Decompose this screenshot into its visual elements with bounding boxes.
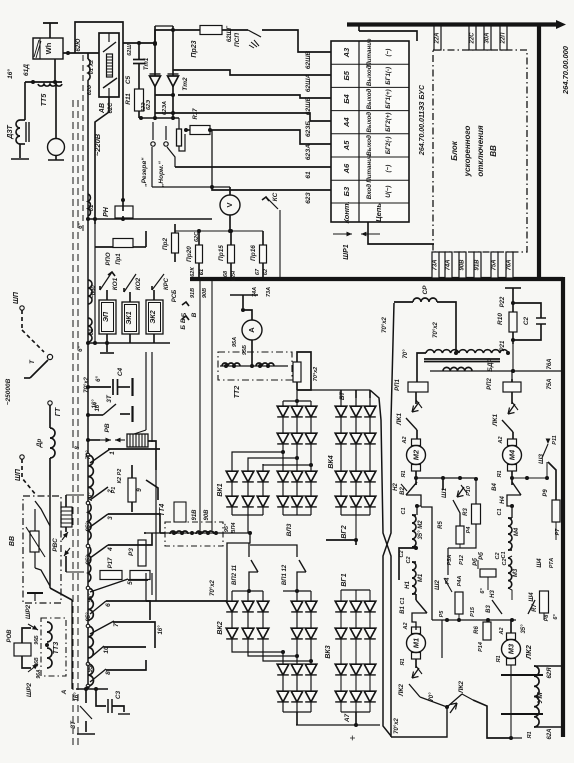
svg-text:R6: R6: [474, 626, 480, 634]
svg-text:62Э: 62Э: [146, 100, 152, 110]
relay RP1 box: [408, 382, 428, 392]
block: Blok uskorennogo otklyucheniya VV (dash-dot box): [433, 50, 527, 252]
svg-text:ШП: ШП: [13, 291, 20, 304]
svg-text:Питание: Питание: [366, 38, 373, 67]
wire right of M4: [512, 477, 548, 479]
svg-text:А2: А2: [402, 436, 408, 444]
svg-text:Р10: Р10: [466, 486, 472, 496]
choke Dr: [48, 401, 52, 405]
svg-text:~25000В: ~25000В: [5, 378, 12, 405]
svg-text:Выход: Выход: [366, 65, 373, 86]
svg-text:Рб: Рб: [478, 552, 485, 560]
svg-text:В1: В1: [400, 606, 406, 614]
svg-text:РПО: РПО: [106, 252, 112, 265]
coil EP: [99, 300, 116, 334]
svg-text:Пр1: Пр1: [116, 253, 122, 265]
svg-text:61 Х2: 61 Х2: [89, 60, 95, 74]
svg-text:Б: Б: [181, 312, 188, 317]
svg-text:Я1: Я1: [400, 658, 406, 666]
collector wire down: [155, 470, 157, 601]
svg-text:6°: 6°: [78, 346, 84, 352]
svg-text:ДЗТ: ДЗТ: [7, 124, 14, 139]
svg-text:Цепь: Цепь: [374, 203, 383, 222]
lamp circle: [48, 139, 65, 156]
svg-text:М4: М4: [508, 449, 517, 460]
svg-text:КО2: КО2: [135, 277, 142, 290]
ammeter A and bar: [230, 294, 258, 296]
long feeder pair down: [370, 390, 391, 737]
ShP lower dashed: [20, 455, 24, 459]
svg-text:А5: А5: [342, 140, 351, 151]
svg-text:Выход: Выход: [366, 89, 373, 110]
svg-text:7: 7: [113, 623, 120, 627]
svg-text:Вход: Вход: [366, 184, 373, 199]
motor M3: [507, 633, 516, 640]
svg-text:75А: 75А: [547, 378, 553, 389]
svg-text:Я1: Я1: [401, 470, 407, 478]
svg-text:70°: 70°: [403, 349, 409, 359]
svg-text:РТА: РТА: [549, 558, 555, 569]
relay DZT coil: [16, 120, 20, 144]
svg-text:ВЛ3: ВЛ3: [286, 523, 293, 536]
svg-text:„Норм.“: „Норм.“: [158, 160, 165, 187]
resistor P4A: [455, 592, 463, 614]
wire bus 224: [88, 218, 212, 220]
svg-text:А2: А2: [403, 622, 409, 630]
svg-text:Б5: Б5: [342, 70, 351, 80]
svg-text:М1: М1: [418, 573, 424, 582]
winding 61 upper: [88, 194, 90, 216]
wire from table to block: [368, 222, 434, 244]
winding 61 lower: [88, 318, 92, 342]
wire PSP to pin A3: [262, 30, 331, 52]
wire R17 down: [211, 130, 213, 187]
svg-text:6: 6: [105, 603, 112, 607]
wires KO to coils: [106, 290, 108, 300]
svg-text:В: В: [191, 312, 198, 317]
svg-text:73А: 73А: [266, 287, 272, 297]
svg-text:68: 68: [223, 270, 229, 277]
svg-text:62Ю: 62Ю: [76, 39, 82, 52]
svg-text:16°: 16°: [158, 625, 164, 635]
svg-text:РВС: РВС: [52, 538, 59, 552]
svg-text:РОВ: РОВ: [7, 629, 13, 643]
svg-text:70°х2: 70°х2: [433, 321, 439, 337]
svg-text:62ША: 62ША: [305, 74, 312, 93]
wire: top feeder bus 264.70.00.000: [347, 22, 560, 26]
wire M2 branch to cluster B: [421, 507, 432, 620]
svg-text:Ш4: Ш4: [529, 592, 535, 602]
svg-text:КС: КС: [272, 192, 279, 201]
R10 C2 network: [505, 287, 521, 289]
svg-text:V: V: [225, 202, 234, 207]
svg-text:95°: 95°: [86, 522, 92, 532]
wire: right edge feeder down: [561, 277, 565, 737]
VK2 bottom stepped: [232, 648, 283, 652]
svg-text:+: +: [348, 735, 359, 741]
svg-text:ВК3: ВК3: [325, 645, 332, 658]
svg-text:М4: М4: [514, 527, 520, 536]
svg-text:Тт1: Тт1: [144, 57, 150, 70]
svg-text:АВ: АВ: [99, 103, 106, 114]
ground top: [43, 22, 58, 24]
svg-text:91В: 91В: [190, 288, 196, 298]
wire A down: [71, 600, 73, 689]
svg-text:ШР2: ШР2: [25, 604, 32, 619]
svg-text:ЛК2: ЛК2: [458, 681, 465, 694]
resistor RV hatched: [127, 434, 148, 447]
coil EK2: [146, 300, 163, 334]
svg-text:91В: 91В: [192, 509, 198, 521]
svg-text:Р22: Р22: [500, 296, 506, 307]
svg-text:БГ1(+): БГ1(+): [385, 89, 392, 108]
resistor R3: [472, 504, 481, 524]
svg-text:Ш2: Ш2: [434, 580, 441, 590]
wire to DZT: [24, 82, 26, 120]
svg-text:Р15: Р15: [470, 606, 476, 617]
svg-text:61: 61: [305, 171, 312, 179]
svg-text:95Б: 95Б: [242, 345, 248, 355]
svg-text:U(~): U(~): [385, 185, 392, 197]
wires thyristors to table: [173, 70, 331, 75]
svg-text:62: 62: [263, 269, 269, 275]
fuse small: [178, 118, 180, 129]
svg-text:62Я: 62Я: [547, 667, 553, 679]
svg-text:95°: 95°: [224, 523, 230, 532]
wire bottom 343: [88, 342, 170, 344]
svg-text:Пр2: Пр2: [162, 237, 169, 250]
svg-text:ВП2 11: ВП2 11: [232, 564, 238, 585]
thyristor Tt1: [154, 26, 156, 120]
contact block ROV: [14, 643, 31, 656]
svg-text:62ШВ: 62ШВ: [305, 51, 312, 70]
svg-text:Н4: Н4: [500, 496, 506, 504]
svg-text:С2: С2: [406, 556, 412, 563]
svg-text:РН: РН: [103, 206, 110, 217]
wire C2 jog: [414, 546, 418, 550]
svg-text:Р1: Р1: [111, 487, 117, 494]
svg-text:„Резерв“: „Резерв“: [141, 157, 148, 188]
relay RP2 box: [503, 382, 521, 392]
svg-text:С2: С2: [502, 558, 508, 565]
wire 370 to right bus: [430, 370, 563, 372]
contact Norm: [165, 126, 167, 140]
resistor R3: [138, 540, 146, 566]
svg-text:А3: А3: [342, 47, 351, 58]
contact RP pentagon: [146, 480, 158, 500]
svg-text:ТТ3: ТТ3: [53, 642, 60, 655]
svg-text:95°: 95°: [86, 555, 92, 565]
svg-text:3: 3: [107, 516, 114, 520]
svg-text:95А: 95А: [232, 337, 238, 347]
svg-text:70°: 70°: [88, 492, 94, 502]
svg-text:Питание: Питание: [366, 154, 373, 183]
svg-text:БГ1(-): БГ1(-): [385, 67, 392, 85]
brush bars: [501, 674, 543, 676]
svg-text:75А: 75А: [492, 259, 498, 270]
relay RN: [115, 206, 133, 218]
svg-text:62Ш: 62Ш: [127, 44, 133, 56]
svg-text:Блок: Блок: [450, 140, 459, 161]
capacitor C2: [536, 317, 546, 319]
svg-text:К2 Р2: К2 Р2: [117, 469, 123, 484]
svg-text:Ш4: Ш4: [537, 558, 543, 568]
wire: lower horizontal feeder bus: [190, 277, 563, 281]
svg-text:БТ: БТ: [339, 391, 346, 400]
svg-text:ЛК2: ЛК2: [398, 684, 405, 697]
svg-text:ШР1: ШР1: [343, 244, 350, 260]
svg-text:С2: С2: [523, 316, 530, 325]
VV main conductor through: [49, 480, 51, 588]
fuse Pr15: [228, 245, 235, 263]
bottom wire to M3: [473, 700, 511, 738]
svg-text:96Б: 96Б: [34, 635, 40, 645]
svg-text:5: 5: [127, 581, 134, 585]
svg-text:ВК2: ВК2: [217, 621, 224, 634]
svg-text:90В: 90В: [460, 259, 466, 271]
svg-text:62ЗА: 62ЗА: [305, 144, 312, 160]
svg-text:22П: 22П: [501, 32, 507, 45]
svg-text:95°: 95°: [86, 612, 92, 622]
svg-text:R17: R17: [193, 108, 199, 120]
svg-text:Р5: Р5: [439, 610, 445, 618]
resistor RTA: [540, 591, 549, 613]
svg-text:ШП: ШП: [15, 468, 22, 481]
svg-text:А: А: [61, 689, 68, 695]
svg-text:62ШГ: 62ШГ: [227, 26, 233, 43]
resistor R9: [552, 500, 560, 522]
svg-text:Р3: Р3: [128, 548, 135, 556]
svg-text:61: 61: [89, 204, 95, 211]
junction bus y118: [139, 117, 179, 119]
VV contact lower: [35, 568, 50, 586]
relay RV with arrows: [86, 438, 90, 442]
wire to pin A6: [175, 166, 331, 168]
svg-text:А6: А6: [342, 163, 351, 174]
svg-text:R11: R11: [125, 93, 132, 105]
svg-text:А: А: [247, 327, 256, 333]
svg-text:96В: 96В: [34, 657, 40, 667]
svg-text:3Т: 3Т: [106, 394, 113, 403]
GT tap winding: [88, 455, 93, 498]
resistor R5A: [456, 526, 464, 544]
svg-text:А2: А2: [499, 627, 505, 635]
svg-text:Н1: Н1: [405, 581, 411, 589]
svg-text:УМ: УМ: [535, 692, 544, 704]
wire Wh lower terminal: [54, 59, 56, 82]
svg-text:6°: 6°: [96, 376, 102, 382]
svg-text:Б3: Б3: [342, 186, 351, 196]
svg-text:ВК4: ВК4: [328, 455, 335, 468]
wire R17 to pin A5: [210, 130, 331, 144]
wire: transformer secondary main line: [87, 80, 89, 689]
svg-text:70°х2: 70°х2: [210, 579, 216, 595]
svg-text:Р21: Р21: [500, 340, 506, 351]
svg-text:ВП1 12: ВП1 12: [282, 564, 288, 585]
svg-text:6°: 6°: [553, 614, 559, 620]
svg-text:Н2: Н2: [393, 483, 399, 491]
resistor R17: [100, 571, 122, 580]
motor M4: [508, 439, 517, 446]
svg-text:ВВ: ВВ: [9, 536, 16, 546]
fuse Pr2: [172, 233, 179, 253]
svg-text:отключения: отключения: [476, 125, 485, 176]
svg-text:91В: 91В: [475, 259, 481, 271]
svg-text:Пр16: Пр16: [250, 245, 257, 261]
svg-text:Р4А: Р4А: [457, 576, 463, 587]
resistor RVS hatched: [61, 507, 72, 527]
svg-text:(~): (~): [385, 49, 392, 57]
svg-text:90В: 90В: [204, 509, 210, 521]
svg-text:А7: А7: [344, 713, 351, 723]
svg-text:264.70.00.011ЭЗ БУС: 264.70.00.011ЭЗ БУС: [419, 84, 426, 156]
reactor SR: [413, 298, 437, 302]
svg-text:Р8: Р8: [544, 614, 550, 622]
wire fuse feed: [175, 230, 263, 232]
svg-text:ВП4: ВП4: [231, 523, 237, 534]
svg-text:Пр20: Пр20: [186, 246, 193, 262]
svg-text:ТТ5: ТТ5: [41, 94, 48, 107]
svg-text:16°: 16°: [6, 69, 14, 79]
svg-text:В4: В4: [492, 483, 498, 491]
svg-text:62З: 62З: [305, 191, 312, 203]
svg-text:Пр23: Пр23: [191, 40, 198, 57]
stepped wires upper trio to VK1: [232, 452, 283, 464]
fuse Pr23: [200, 26, 222, 35]
svg-text:ЭК1: ЭК1: [126, 311, 133, 324]
capacitor C3: [96, 689, 106, 706]
ground DZT: [19, 144, 21, 158]
svg-text:264.70.00.000: 264.70.00.000: [561, 45, 570, 95]
svg-text:35° М2: 35° М2: [418, 520, 424, 540]
VP1 contact 12: [250, 545, 297, 557]
svg-text:74А: 74А: [252, 287, 258, 297]
svg-text:90В: 90В: [202, 288, 208, 298]
svg-text:С3: С3: [115, 690, 122, 699]
thyristor Tt2: [172, 26, 174, 120]
contact KO1: [100, 272, 112, 290]
wire to pin B3: [152, 186, 230, 188]
bottom rail and plus: [296, 724, 380, 726]
svg-text:А2: А2: [498, 436, 504, 444]
svg-text:КРС: КРС: [164, 277, 170, 290]
transformer TT4: [165, 522, 223, 546]
diode chain VK3 col: [282, 652, 284, 712]
VL3 top boxes: [293, 362, 301, 382]
svg-text:R5: R5: [438, 521, 444, 529]
svg-text:74А: 74А: [446, 259, 452, 270]
svg-text:R3: R3: [463, 508, 469, 516]
wires 91V 90V down: [199, 281, 201, 530]
wire SHR1 connector arrows: [333, 233, 352, 235]
VV T bar: [27, 592, 43, 594]
svg-text:95°: 95°: [88, 593, 94, 603]
current transformer TT5: [25, 81, 62, 83]
fuse Pr1 and RPO: [113, 239, 133, 248]
svg-text:С2: С2: [399, 550, 405, 557]
wire: right vertical feeder: [537, 25, 541, 278]
svg-text:ВВ: ВВ: [489, 145, 498, 157]
svg-text:Я1: Я1: [527, 731, 533, 739]
svg-text:67: 67: [255, 268, 261, 275]
svg-text:Тт2: Тт2: [182, 77, 189, 91]
VP2 contact 11: [227, 533, 250, 601]
svg-text:М3: М3: [507, 643, 516, 654]
svg-text:95°: 95°: [88, 663, 94, 673]
svg-text:76А: 76А: [547, 358, 553, 369]
svg-text:ЭП: ЭП: [103, 311, 110, 322]
wires from EK area down: [145, 352, 147, 430]
resistor R17: [190, 126, 210, 135]
bottom junction bus: [76, 688, 108, 690]
svg-text:Р12: Р12: [459, 555, 465, 565]
resistor R10: [509, 312, 517, 332]
svg-text:61: 61: [89, 328, 95, 335]
wire cluster A bottom: [442, 478, 444, 490]
capacitor C4: [86, 385, 90, 389]
wire AV bottom down: [95, 97, 109, 224]
tap arms: [90, 449, 110, 463]
svg-text:Конт.: Конт.: [342, 201, 351, 223]
TT2 coils: [220, 365, 288, 367]
svg-text:ускоренного: ускоренного: [463, 126, 472, 178]
resistor cluster group A: [416, 477, 476, 479]
block bottom stubs 73A 74A 90V 91V 75A 76A: [432, 252, 439, 278]
svg-text:70°х2: 70°х2: [382, 316, 388, 332]
svg-text:62Я: 62Я: [231, 270, 237, 281]
wire bus to UM top: [534, 660, 536, 668]
svg-text:ЛК1: ЛК1: [396, 413, 403, 426]
circuit breaker AV 62S: [99, 33, 119, 97]
svg-text:4: 4: [107, 547, 114, 552]
coil EK1: [122, 302, 139, 334]
svg-text:С1: С1: [401, 507, 407, 514]
svg-text:22С: 22С: [470, 32, 476, 45]
upper trio columns: [282, 401, 284, 515]
resistor P6 horizontal: [480, 569, 496, 577]
voltmeter V: [220, 195, 240, 215]
svg-text:22А: 22А: [435, 32, 441, 44]
svg-text:(~): (~): [385, 165, 392, 173]
transformer TT3: [41, 618, 66, 676]
fuse Pr20: [196, 245, 203, 263]
svg-text:R10: R10: [497, 313, 504, 325]
svg-text:Др: Др: [36, 439, 43, 449]
svg-text:70°: 70°: [86, 450, 92, 460]
svg-text:6°: 6°: [480, 588, 486, 594]
coil UM: [534, 666, 539, 727]
resistor R2 P1 P2: [128, 478, 136, 502]
svg-text:С1: С1: [400, 597, 406, 604]
svg-text:76А: 76А: [507, 259, 513, 270]
svg-text:СР: СР: [422, 285, 429, 295]
wires from taps to rectifier zone: [108, 448, 160, 450]
svg-text:С1: С1: [497, 508, 503, 515]
svg-text:Б4: Б4: [342, 93, 351, 103]
svg-text:70°х2: 70°х2: [84, 376, 90, 392]
svg-text:ЭК2: ЭК2: [150, 310, 157, 323]
svg-text:С1: С1: [501, 551, 507, 558]
svg-text:73А: 73А: [433, 259, 439, 270]
svg-text:РСБ: РСБ: [172, 289, 178, 302]
VV contact upper: [35, 501, 50, 526]
svg-text:Р17: Р17: [108, 557, 114, 568]
VV breaker dash-dot box: [23, 496, 61, 603]
columns VK3 left pair: [296, 591, 298, 712]
wire Wh to AV loop: [63, 52, 99, 54]
svg-text:ВГ2: ВГ2: [341, 525, 348, 538]
motor M1: [412, 627, 421, 634]
